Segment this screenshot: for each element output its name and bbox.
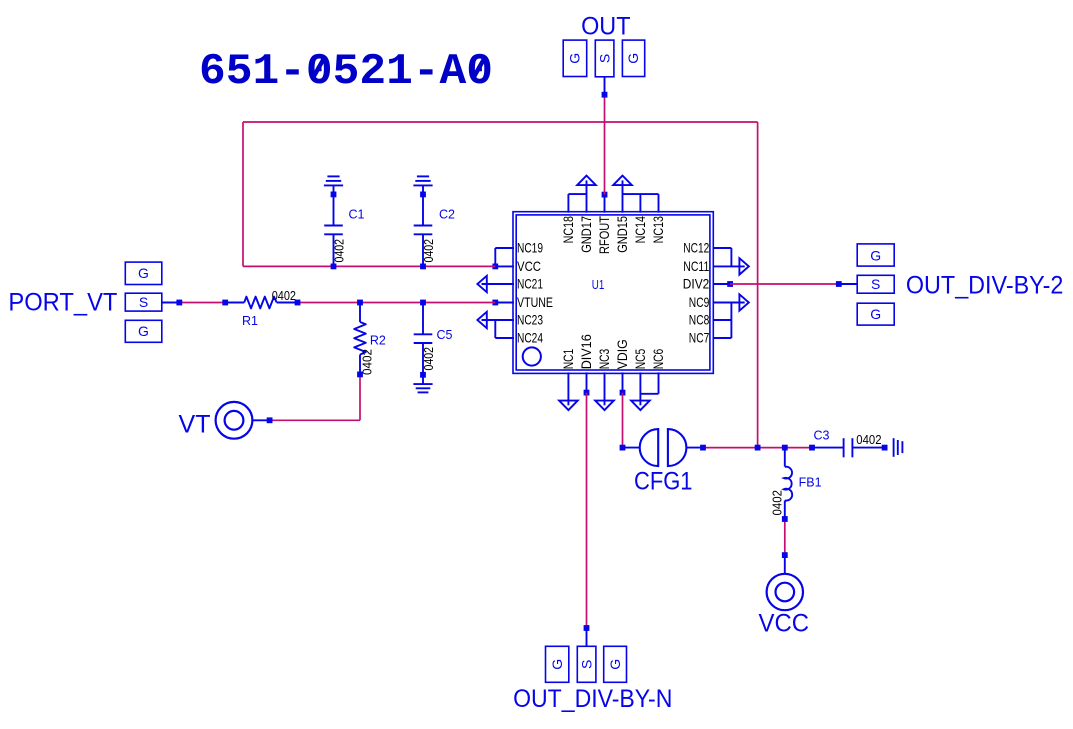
pin NC8 stub <box>713 319 732 321</box>
svg-text:G: G <box>138 323 149 339</box>
node R1 left pin end <box>222 300 228 306</box>
ground below C5 <box>422 375 424 384</box>
node C1-VCC junction <box>331 264 337 270</box>
ground (inverted) above C2 <box>417 175 429 177</box>
node PORT_VT S pin end <box>176 300 182 306</box>
pin RFOUT stub <box>604 195 606 213</box>
svg-text:C5: C5 <box>437 328 453 342</box>
component CFG1 <box>623 447 641 449</box>
node RFOUT junction <box>602 192 608 198</box>
node C3 right end <box>882 445 888 451</box>
node OUT junction <box>602 92 608 98</box>
capacitor C2 <box>422 194 424 225</box>
svg-text:U1: U1 <box>592 278 605 292</box>
wire FB1 to VCC <box>784 519 786 555</box>
svg-text:S: S <box>871 276 880 292</box>
svg-text:S: S <box>596 54 612 63</box>
node OUT_DIV-BY-2 junction <box>836 281 842 287</box>
capacitor C5 <box>422 303 424 335</box>
svg-text:PORT_VT: PORT_VT <box>8 289 117 317</box>
svg-text:G: G <box>870 248 881 264</box>
capacitor C3 <box>812 447 844 449</box>
wire CFG1 to C3 <box>703 447 812 449</box>
wire OUT to RFOUT <box>604 95 606 195</box>
port OUT_DIV-BY-2 pad S <box>857 275 894 293</box>
node C5 top junction <box>420 300 426 306</box>
svg-text:DIV2: DIV2 <box>683 276 710 292</box>
pin DIV2 stub <box>713 283 731 285</box>
pin NC12 stub <box>713 247 732 249</box>
node FB1 bottom junction <box>782 516 788 522</box>
svg-text:VT: VT <box>179 411 211 439</box>
svg-text:NC6: NC6 <box>650 349 666 370</box>
pin NC23 stub + arrow <box>477 312 486 328</box>
svg-text:R1: R1 <box>242 314 258 328</box>
pin NC21 stub + arrow <box>477 276 486 292</box>
capacitor C1 <box>333 194 335 225</box>
node C2-VCC junction <box>420 264 426 270</box>
svg-text:0402: 0402 <box>272 289 296 303</box>
svg-text:NC13: NC13 <box>650 216 666 244</box>
pin NC3 stub + arrow down <box>595 401 614 411</box>
node VCC wire end <box>782 552 788 558</box>
pin NC7 stub <box>713 337 732 339</box>
svg-text:651-0521-A0: 651-0521-A0 <box>199 47 493 97</box>
node VT junction <box>267 417 273 423</box>
svg-text:NC7: NC7 <box>689 330 710 346</box>
svg-text:NC11: NC11 <box>683 258 709 274</box>
PORT_VT S pin stub <box>162 302 180 304</box>
ground right of C3 <box>893 438 895 457</box>
VT connector symbol <box>216 402 253 439</box>
port OUT_DIV-BY-2 pad G <box>857 244 894 266</box>
node VDIG junction <box>620 390 626 396</box>
svg-text:S: S <box>139 294 148 310</box>
svg-text:NC3: NC3 <box>596 349 612 370</box>
port OUT_DIV-BY-N pad S <box>577 646 596 682</box>
node VCC junction <box>492 264 498 270</box>
pin NC18 stub <box>567 194 569 213</box>
wire VDIG down to CFG1 <box>622 393 624 448</box>
wire DIV16 to OUT_DIV-BY-N <box>586 393 588 628</box>
svg-text:G: G <box>870 306 881 322</box>
wire DIV2 to OUT_DIV-BY-2 <box>730 283 839 285</box>
node FB1 top junction <box>782 445 788 451</box>
port OUT_DIV-BY-N pad G <box>546 646 569 682</box>
svg-text:NC24: NC24 <box>517 330 543 346</box>
pin NC24 stub <box>494 320 496 338</box>
node CFG1 left junction <box>620 445 626 451</box>
svg-text:OUT: OUT <box>581 13 630 41</box>
svg-text:VDIG: VDIG <box>614 339 630 369</box>
svg-text:VCC: VCC <box>759 609 810 637</box>
svg-text:NC14: NC14 <box>632 216 648 244</box>
svg-text:NC19: NC19 <box>517 240 543 256</box>
svg-text:C3: C3 <box>814 428 830 442</box>
pin NC11 stub + arrow <box>739 258 748 274</box>
port OUT_DIV-BY-2 pad G2 <box>857 303 894 325</box>
pin GND15 stub + arrow up <box>613 176 632 186</box>
svg-text:0402: 0402 <box>360 349 374 375</box>
pin VCC stub <box>495 265 514 267</box>
svg-text:VTUNE: VTUNE <box>517 294 553 310</box>
pin NC6 stub <box>658 372 660 393</box>
svg-text:C1: C1 <box>349 207 365 221</box>
node C5 bottom junction <box>420 372 426 378</box>
svg-text:GND15: GND15 <box>614 216 630 253</box>
U1 pin-1 circle <box>523 347 541 365</box>
pin NC14 stub <box>639 194 641 213</box>
svg-text:0402: 0402 <box>332 239 346 263</box>
svg-text:OUT_DIV-BY-N: OUT_DIV-BY-N <box>513 685 672 713</box>
svg-text:C2: C2 <box>439 207 455 221</box>
svg-text:DIV16: DIV16 <box>578 334 594 369</box>
svg-text:CFG1: CFG1 <box>634 468 693 496</box>
port PORT_VT pad S <box>125 293 162 311</box>
pin GND17 stub + arrow up <box>577 176 596 186</box>
svg-text:NC8: NC8 <box>689 312 710 328</box>
wire PORT_VT to R1 <box>179 302 225 304</box>
svg-text:NC23: NC23 <box>517 312 543 328</box>
ground (inverted) above C1 <box>327 175 339 177</box>
svg-text:NC1: NC1 <box>560 349 576 370</box>
node R2 top junction <box>357 300 363 306</box>
wire VCC loop top horizontal <box>243 121 758 123</box>
svg-text:0402: 0402 <box>422 239 436 263</box>
svg-text:NC12: NC12 <box>683 240 709 256</box>
svg-text:0402: 0402 <box>856 433 881 447</box>
port OUT pad S <box>595 40 614 77</box>
svg-text:R2: R2 <box>370 333 386 347</box>
svg-text:0402: 0402 <box>770 490 784 516</box>
wire VT horizontal <box>270 419 360 421</box>
node VCC-loop junction <box>755 445 761 451</box>
OUT_DIV-BY-N S pin stub <box>586 628 588 646</box>
svg-text:NC5: NC5 <box>632 349 648 370</box>
pin DIV16 stub <box>586 372 588 392</box>
node CFG1 right junction <box>700 445 706 451</box>
pin NC13 stub <box>658 194 660 213</box>
port OUT_DIV-BY-N pad G2 <box>604 646 627 682</box>
pin VDIG stub <box>622 372 624 392</box>
GND15-NC13 bracket <box>623 193 659 195</box>
node DIV2 junction <box>727 281 733 287</box>
port PORT_VT pad G <box>125 262 162 284</box>
svg-text:GND17: GND17 <box>578 216 594 253</box>
resistor R2 <box>359 303 361 323</box>
node VTUNE junction <box>492 300 498 306</box>
svg-text:VCC: VCC <box>517 258 541 274</box>
ferrite bead FB1 <box>784 448 786 467</box>
svg-text:S: S <box>578 660 594 669</box>
OUT_DIV-BY-2 S pin stub <box>839 283 857 285</box>
svg-text:NC18: NC18 <box>560 216 576 244</box>
pin NC9 stub + arrow <box>739 294 748 310</box>
node C2 top junction <box>420 192 426 198</box>
port OUT pad G <box>563 40 587 76</box>
svg-text:G: G <box>138 265 149 281</box>
svg-text:G: G <box>607 659 623 670</box>
IC U1 body <box>513 212 713 374</box>
svg-text:G: G <box>567 53 583 64</box>
VCC connector symbol <box>784 555 786 574</box>
wire VCC net horizontal <box>243 265 495 267</box>
node C3 left wire end <box>809 445 815 451</box>
wire VCC loop right vertical <box>757 122 759 448</box>
node C1 top junction <box>331 192 337 198</box>
node OUT_DIV-BY-N junction <box>584 625 590 631</box>
node R2 bottom junction <box>357 372 363 378</box>
node DIV16 junction <box>584 390 590 396</box>
svg-text:OUT_DIV-BY-2: OUT_DIV-BY-2 <box>906 271 1064 299</box>
pin NC19 stub <box>495 247 514 249</box>
svg-text:FB1: FB1 <box>799 475 822 489</box>
pin NC1 stub + arrow down <box>559 401 578 411</box>
wire VCC loop left vertical <box>242 122 244 266</box>
port OUT pad G2 <box>622 40 644 76</box>
svg-text:NC9: NC9 <box>689 294 710 310</box>
node R1 right wire end <box>295 300 301 306</box>
wire R2 bottom to VT corner <box>359 374 361 420</box>
pin VTUNE stub <box>495 302 514 304</box>
OUT S pin stub <box>604 77 606 95</box>
port PORT_VT pad G2 <box>125 320 162 342</box>
svg-text:RFOUT: RFOUT <box>596 216 612 254</box>
svg-text:0402: 0402 <box>422 347 436 371</box>
NC9-NC7 bracket <box>730 303 732 339</box>
svg-text:G: G <box>625 53 641 64</box>
wire R1 to VTUNE <box>298 302 496 304</box>
svg-text:G: G <box>549 659 565 670</box>
resistor R1 <box>225 302 244 304</box>
svg-text:NC21: NC21 <box>517 276 543 292</box>
pin NC5 stub + arrow down <box>631 401 650 411</box>
